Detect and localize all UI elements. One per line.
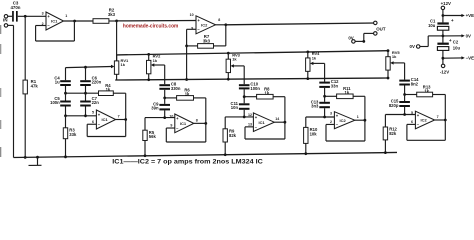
- capacitor C14: [399, 77, 419, 86]
- svg-text:820p: 820p: [389, 103, 399, 108]
- wire: [435, 119, 446, 121]
- op-amp IC2 stage 4: [334, 112, 354, 129]
- wire: [245, 122, 285, 139]
- wire: [243, 66, 245, 84]
- op-amp IC1 stage 2: [175, 114, 194, 133]
- svg-text:IN: IN: [3, 18, 8, 23]
- wire: [442, 10, 444, 23]
- wire: [443, 57, 462, 59]
- svg-text:0V: 0V: [466, 34, 471, 39]
- wire: [326, 120, 365, 141]
- wire: [243, 97, 245, 104]
- pin 7: [437, 115, 439, 119]
- svg-text:56k: 56k: [149, 134, 157, 139]
- wire: [66, 107, 97, 116]
- wire: [116, 21, 118, 61]
- wire: [274, 121, 285, 123]
- svg-text:C2: C2: [453, 39, 459, 44]
- svg-text:3k3: 3k3: [203, 39, 211, 44]
- op-amp IC1 buffer: [46, 12, 64, 30]
- wire: [117, 20, 196, 22]
- pin 9: [170, 124, 172, 128]
- wire: [226, 23, 375, 25]
- svg-text:3k3: 3k3: [108, 12, 116, 17]
- pin 6: [92, 120, 94, 124]
- wire: [442, 50, 444, 64]
- terminal 0V out: [348, 36, 355, 44]
- node stage5 input: [403, 113, 406, 116]
- svg-text:1k: 1k: [392, 54, 397, 59]
- wire: [194, 122, 206, 124]
- op-amp IC2 mixer: [196, 16, 216, 34]
- node 0V rail: [442, 35, 445, 38]
- pin 3: [330, 112, 332, 116]
- pin 5: [92, 110, 94, 114]
- node IC2 output: [224, 23, 227, 26]
- capacitor C15: [389, 99, 410, 108]
- pin 8: [196, 118, 198, 122]
- pin 12: [248, 113, 252, 117]
- op-amp IC2 stage 5: [415, 111, 434, 129]
- resistor R10: [304, 117, 318, 154]
- wire: [324, 96, 326, 102]
- wire: [187, 45, 198, 47]
- svg-text:10n: 10n: [231, 105, 239, 110]
- capacitor C5: [50, 96, 71, 107]
- svg-text:47k: 47k: [31, 84, 39, 89]
- wire: [109, 20, 117, 22]
- svg-text:IC1: IC1: [51, 19, 58, 24]
- node stage2 input: [163, 116, 166, 119]
- wire: [187, 29, 196, 46]
- svg-text:6: 6: [92, 120, 94, 124]
- wire: [24, 16, 26, 80]
- svg-text:1u: 1u: [55, 80, 60, 85]
- capacitor C1: [428, 18, 454, 30]
- node ground R5: [144, 154, 147, 157]
- pin 10: [190, 13, 194, 17]
- node stage2 mid: [163, 97, 166, 100]
- pin 13: [248, 122, 252, 126]
- svg-text:1k: 1k: [153, 58, 158, 63]
- wire: [407, 120, 445, 140]
- terminal -12V: [440, 64, 449, 74]
- potentiometer RV1: [111, 55, 129, 80]
- svg-text:1k: 1k: [232, 57, 237, 62]
- capacitor C3: [10, 1, 20, 22]
- pin 7: [118, 115, 120, 119]
- wire: [405, 86, 417, 95]
- wire: [420, 36, 443, 47]
- svg-text:0V: 0V: [410, 44, 415, 49]
- resistor R8: [257, 87, 274, 100]
- wire: [442, 30, 444, 42]
- potentiometer RV4: [306, 51, 325, 80]
- svg-text:IC1——IC2 = 7 op amps from 2nos: IC1——IC2 = 7 op amps from 2nos LM324 IC: [112, 158, 263, 165]
- svg-text:5: 5: [92, 110, 94, 114]
- output ground terminal: [374, 32, 378, 36]
- wire: [364, 33, 374, 41]
- svg-text:39n: 39n: [151, 106, 159, 111]
- node A: [115, 20, 118, 23]
- svg-text:1k: 1k: [106, 87, 111, 92]
- wire: [306, 108, 335, 117]
- resistor R4: [99, 83, 114, 96]
- capacitor C13: [311, 99, 330, 108]
- node stage5 mid: [403, 93, 406, 96]
- svg-text:7: 7: [437, 115, 439, 119]
- svg-text:1k: 1k: [185, 92, 190, 97]
- node feedback bus tap: [185, 78, 188, 81]
- svg-text:100n: 100n: [50, 100, 60, 105]
- svg-text:IC2: IC2: [339, 118, 346, 123]
- node -V rail: [442, 57, 445, 60]
- pin 14: [275, 117, 279, 121]
- wire: [24, 94, 26, 157]
- capacitor C2: [437, 39, 460, 51]
- wire: [443, 15, 462, 17]
- svg-text:1k: 1k: [312, 55, 317, 60]
- node stage5 output: [444, 119, 447, 122]
- node ground R12: [384, 151, 387, 154]
- wire: [64, 20, 94, 22]
- node stage1 output: [124, 118, 127, 121]
- svg-text:12: 12: [248, 113, 252, 117]
- svg-text:470n: 470n: [10, 5, 20, 10]
- wire: [8, 15, 12, 17]
- wire: [244, 89, 256, 96]
- svg-text:IC1: IC1: [258, 120, 265, 125]
- capacitor C4: [54, 75, 70, 86]
- svg-text:10: 10: [169, 114, 173, 118]
- capacitor C10: [239, 82, 260, 91]
- wire node-A bus: [117, 51, 388, 55]
- label watermark: [123, 23, 179, 29]
- svg-text:−VE: −VE: [466, 56, 474, 61]
- svg-text:OUT: OUT: [376, 27, 386, 32]
- node ground R9: [224, 153, 227, 156]
- resistor R1: [23, 79, 38, 94]
- svg-text:6: 6: [411, 120, 413, 124]
- capacitor C11: [231, 101, 250, 110]
- pin 6: [411, 120, 413, 124]
- node 0V out: [362, 40, 365, 43]
- capacitor C7: [80, 96, 99, 107]
- capacitor C12: [319, 79, 339, 88]
- wire: [66, 86, 99, 93]
- wire: [166, 123, 206, 142]
- svg-text:+: +: [449, 39, 452, 44]
- svg-text:9: 9: [170, 124, 172, 128]
- svg-text:7: 7: [118, 115, 120, 119]
- terminal 0V left: [410, 44, 420, 49]
- svg-text:33n: 33n: [331, 83, 339, 88]
- svg-text:33k: 33k: [69, 132, 77, 137]
- node after C3: [24, 15, 27, 18]
- wire: [216, 24, 226, 26]
- input terminal IN: [3, 15, 8, 23]
- svg-text:+12V: +12V: [441, 1, 451, 6]
- terminal +VE: [461, 13, 474, 18]
- svg-text:10: 10: [190, 13, 194, 17]
- resistor R3: [63, 116, 77, 157]
- pin 5: [411, 111, 413, 115]
- pin 2: [330, 120, 332, 124]
- node R7 left: [185, 45, 188, 48]
- wire: [404, 63, 406, 80]
- wire: [404, 95, 406, 102]
- op-amp IC1 stage 3: [253, 113, 274, 132]
- svg-text:+VE: +VE: [466, 13, 474, 18]
- ground symbol 0V: [29, 156, 42, 166]
- svg-text:1k: 1k: [424, 88, 429, 93]
- node +V rail: [442, 14, 445, 17]
- wire: [165, 90, 177, 98]
- resistor R5: [143, 118, 157, 156]
- pin 8: [218, 18, 220, 22]
- svg-text:9: 9: [191, 27, 193, 31]
- potentiometer RV3: [226, 52, 244, 81]
- svg-text:2: 2: [330, 120, 332, 124]
- wire: [324, 63, 326, 81]
- pin 9: [191, 27, 193, 31]
- node ground R10: [304, 152, 307, 155]
- svg-text:1: 1: [357, 115, 359, 119]
- wire: [66, 67, 86, 80]
- wire: [443, 35, 462, 37]
- wire: [353, 96, 365, 120]
- resistor R13: [417, 84, 433, 96]
- node stage2 output: [204, 122, 207, 125]
- wire: [66, 93, 86, 100]
- terminal -VE: [461, 56, 474, 61]
- wire: [433, 95, 446, 121]
- svg-text:220n: 220n: [92, 80, 102, 85]
- wire: [273, 97, 285, 123]
- svg-text:330n: 330n: [171, 86, 181, 91]
- node stage3 output: [284, 121, 287, 124]
- svg-text:homemade-circuits.com: homemade-circuits.com: [123, 23, 179, 29]
- wire: [214, 25, 226, 46]
- wire: [116, 119, 126, 121]
- svg-text:10k: 10k: [310, 131, 318, 136]
- op-amp IC1 stage 1: [96, 110, 115, 129]
- svg-text:8: 8: [196, 118, 198, 122]
- svg-text:13: 13: [248, 122, 252, 126]
- svg-text:0V: 0V: [348, 36, 353, 41]
- svg-text:10u: 10u: [453, 46, 461, 51]
- wire: [164, 98, 166, 104]
- pin 2: [42, 22, 44, 26]
- resistor R12: [383, 115, 397, 153]
- wire: [186, 46, 188, 80]
- node stage4 output: [364, 119, 367, 122]
- svg-text:10u: 10u: [428, 23, 436, 28]
- resistor R2: [93, 8, 116, 24]
- wire: [66, 67, 112, 68]
- wire: [87, 120, 126, 137]
- wire: [355, 119, 365, 121]
- wire: [164, 65, 166, 84]
- node stage4 input: [323, 116, 326, 119]
- wire: [113, 93, 125, 119]
- node stage4 mid: [323, 95, 326, 98]
- pin 1: [65, 14, 67, 18]
- node ground R3: [64, 155, 67, 158]
- terminal 0V right: [461, 34, 471, 39]
- capacitor C9: [151, 101, 170, 110]
- svg-text:1k: 1k: [121, 62, 126, 67]
- svg-text:1k: 1k: [345, 90, 350, 95]
- pin 10: [169, 114, 173, 118]
- resistor R9: [223, 117, 237, 155]
- wire ground bus 0V: [14, 152, 398, 157]
- terminal +12V: [441, 1, 451, 10]
- svg-text:3: 3: [42, 12, 44, 16]
- node stage1 input: [64, 114, 87, 117]
- output terminal OUT: [374, 21, 386, 31]
- wire: [385, 107, 415, 115]
- svg-text:22n: 22n: [92, 100, 100, 105]
- node ground R1: [24, 156, 27, 159]
- node stage3 input: [243, 116, 246, 119]
- svg-text:IC1: IC1: [180, 121, 187, 126]
- node stage3 mid: [243, 95, 246, 98]
- svg-text:8n2: 8n2: [411, 81, 419, 86]
- svg-text:+: +: [451, 19, 454, 24]
- capacitor C8: [159, 82, 180, 91]
- wire: [36, 21, 75, 41]
- wire: [145, 110, 175, 117]
- svg-text:3n3: 3n3: [311, 104, 319, 109]
- wire: [194, 98, 206, 124]
- svg-text:14: 14: [275, 117, 279, 121]
- svg-text:IC2: IC2: [201, 22, 208, 27]
- resistor R11: [337, 86, 354, 99]
- wire feedback bus: [115, 78, 388, 80]
- svg-text:100n: 100n: [250, 86, 260, 91]
- svg-text:82k: 82k: [229, 133, 237, 138]
- wire: [18, 15, 46, 17]
- svg-text:IC2: IC2: [420, 118, 427, 123]
- wire: [225, 110, 253, 117]
- potentiometer RV2: [147, 53, 165, 81]
- svg-text:1k: 1k: [265, 91, 270, 96]
- svg-text:IC1: IC1: [101, 117, 108, 122]
- pin 1: [357, 115, 359, 119]
- input ground terminal: [4, 24, 8, 28]
- svg-text:8: 8: [218, 18, 220, 22]
- svg-text:3: 3: [330, 112, 332, 116]
- resistor R7: [198, 34, 214, 48]
- potentiometer RV5: [386, 49, 405, 79]
- capacitor C6: [80, 75, 101, 86]
- svg-text:1: 1: [65, 14, 67, 18]
- node C6 top: [84, 66, 87, 69]
- svg-text:82k: 82k: [389, 131, 397, 136]
- pin 3: [42, 12, 44, 16]
- wire: [325, 88, 337, 96]
- svg-text:5: 5: [411, 111, 413, 115]
- wire: [8, 25, 14, 157]
- node stage1 mid: [64, 92, 87, 95]
- wire: [355, 40, 364, 42]
- node buffer output: [73, 20, 76, 23]
- svg-text:-12V: -12V: [440, 70, 449, 75]
- resistor R6: [177, 88, 194, 101]
